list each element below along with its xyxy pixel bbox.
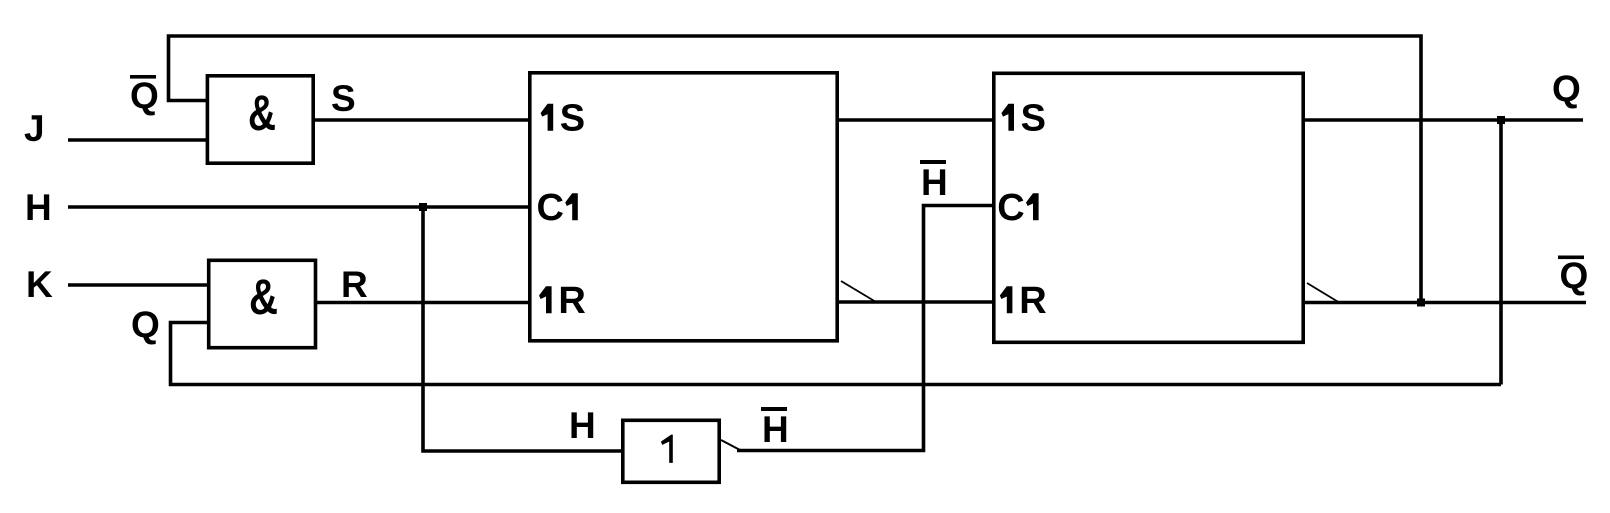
- latch U1 (master SR latch): [530, 73, 837, 341]
- node junction Qbar feedback on Qbar output: [1417, 299, 1425, 307]
- wire Q output feedback vertical: [1499, 120, 1503, 385]
- svg-text:Q: Q: [130, 75, 159, 116]
- svg-text:R: R: [1019, 280, 1046, 322]
- node junction Q output / feedback: [1497, 116, 1505, 124]
- svg-text:Q: Q: [1560, 255, 1589, 296]
- label Qbar feedback (top left): [130, 75, 159, 116]
- svg-text:&: &: [249, 269, 278, 325]
- wire Hbar (inverter output to slave C1): [737, 206, 992, 451]
- label Hbar (at slave C1): [920, 160, 948, 203]
- svg-text:C: C: [997, 187, 1024, 229]
- and-gate G1 (J gate): [207, 76, 313, 163]
- svg-text:S: S: [560, 98, 585, 140]
- svg-text:S: S: [331, 78, 356, 119]
- svg-text:&: &: [248, 85, 276, 141]
- svg-text:K: K: [26, 264, 53, 305]
- label Hbar (inverter output): [761, 407, 789, 450]
- svg-text:H: H: [921, 162, 948, 203]
- svg-text:R: R: [558, 280, 585, 322]
- master 1R output slash: [841, 281, 876, 302]
- wire Qbar output: [1305, 301, 1586, 305]
- wire Q output: [1305, 118, 1583, 122]
- wire H clock input: [68, 205, 528, 209]
- svg-text:H: H: [762, 409, 789, 450]
- wire S (G1 output to 1S of master): [314, 118, 528, 122]
- svg-text:Q: Q: [131, 304, 160, 345]
- wire 1S link (master output to slave 1S): [839, 118, 992, 122]
- latch U2 (slave SR latch): [994, 73, 1303, 342]
- wire Q feedback (bottom): [171, 323, 1502, 385]
- svg-text:H: H: [569, 405, 596, 446]
- inverter U3 (1): [623, 420, 719, 482]
- svg-text:J: J: [24, 108, 45, 149]
- wire J input: [68, 138, 208, 142]
- svg-text:S: S: [1021, 98, 1046, 140]
- svg-text:Q: Q: [1552, 68, 1581, 109]
- svg-text:C: C: [537, 187, 564, 229]
- and-gate G2 (K gate): [209, 260, 316, 347]
- wire 1R link (master output to slave 1R): [839, 300, 992, 304]
- wire R (G2 output to 1R of master): [316, 301, 528, 305]
- node junction H/C1 branch: [419, 203, 427, 211]
- wire Qbar feedback (top): [169, 36, 1422, 303]
- svg-text:H: H: [25, 187, 52, 228]
- output label Qbar: [1558, 255, 1588, 296]
- svg-text:R: R: [341, 264, 368, 305]
- slave 1R output slash: [1307, 283, 1340, 303]
- wire C1 branch down to inverter input: [423, 207, 621, 451]
- inverter output slash: [721, 440, 741, 451]
- wire K input: [68, 283, 208, 287]
